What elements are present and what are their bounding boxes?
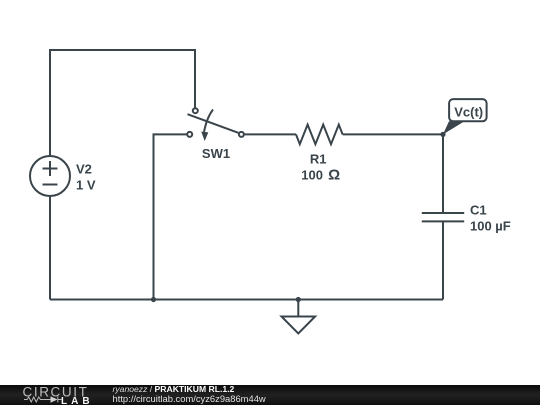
svg-text:R1: R1	[310, 151, 327, 166]
svg-text:SW1: SW1	[202, 146, 230, 161]
svg-text:100 Ω: 100 Ω	[301, 166, 340, 183]
svg-text:V2: V2	[76, 161, 92, 176]
svg-text:Vc(t): Vc(t)	[454, 105, 483, 120]
svg-text:100 µF: 100 µF	[470, 219, 511, 234]
svg-text:LAB: LAB	[61, 396, 94, 405]
svg-text:C1: C1	[470, 203, 487, 218]
svg-text:1 V: 1 V	[76, 177, 96, 192]
